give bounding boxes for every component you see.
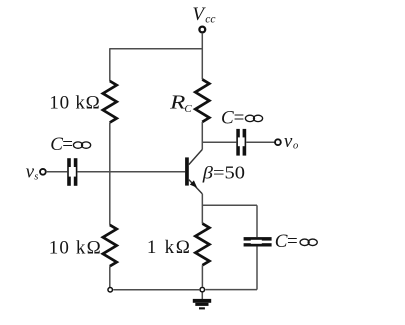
wire collector vertical (201, 122, 203, 149)
label vs (26, 162, 39, 183)
transistor Q1 emitter lead (189, 180, 203, 194)
wire base from cap to transistor (77, 171, 185, 173)
resistor RC collector (195, 79, 209, 122)
wire output left of cap (202, 141, 236, 143)
capacitor C input coupling (67, 158, 77, 186)
resistor R1 10 kOhm upper (103, 81, 117, 123)
resistor R2 10 kOhm lower (103, 225, 117, 266)
node circle bottom left (108, 287, 113, 292)
capacitor C output coupling (236, 129, 246, 156)
transistor Q1 emitter arrow (190, 180, 197, 187)
terminal vs (40, 169, 46, 175)
svg-text:V: V (192, 4, 206, 25)
wire Vcc down to Rc (201, 33, 203, 80)
label C=infinity output (221, 107, 263, 128)
wire left branch upper segment (109, 48, 111, 81)
wire bypass branch lower (256, 246, 258, 289)
svg-text:10 kΩ: 10 kΩ (49, 92, 100, 113)
svg-text:v: v (284, 131, 293, 152)
svg-text:s: s (34, 172, 38, 183)
terminal vo (275, 139, 281, 145)
value label 10 kOhm lower (49, 237, 101, 258)
wire output right of cap (246, 141, 275, 143)
value label 1 kOhm (147, 237, 190, 258)
svg-text:C: C (184, 103, 192, 115)
label RC (169, 92, 192, 115)
wire emitter vertical (201, 194, 203, 224)
transistor Q1 collector lead (189, 149, 203, 164)
wire emitter branch to bypass (202, 204, 257, 206)
svg-text:C: C (221, 107, 234, 128)
svg-text:o: o (293, 140, 298, 151)
label vo (284, 131, 298, 152)
resistor RE 1 kOhm (195, 224, 209, 266)
wire left branch middle segment through base node (109, 123, 111, 225)
wire left branch bottom segment (109, 266, 111, 287)
wire emitter resistor bottom (201, 265, 203, 287)
svg-text:cc: cc (205, 14, 215, 26)
wire bypass branch upper (256, 205, 258, 237)
ground symbol (193, 299, 211, 310)
svg-text:β=50: β=50 (202, 163, 245, 183)
svg-text:=: = (234, 107, 245, 128)
label beta=50 (202, 163, 245, 183)
node circle bottom center (200, 287, 205, 292)
wire top rail from left branch to Vcc branch (110, 48, 203, 50)
svg-text:C: C (275, 231, 288, 252)
label Vcc (192, 4, 215, 26)
svg-text:1 kΩ: 1 kΩ (147, 237, 190, 258)
terminal Vcc (199, 27, 205, 33)
capacitor C bypass (244, 237, 272, 246)
svg-text:10 kΩ: 10 kΩ (49, 237, 101, 258)
label C=infinity bypass (275, 231, 318, 252)
wire bottom rail left (113, 289, 199, 291)
wire bottom rail right (205, 289, 257, 291)
value label 10 kOhm upper (49, 92, 100, 113)
svg-text:C: C (50, 134, 63, 155)
transistor Q1 base bar (185, 157, 189, 185)
wire ground stub (201, 292, 203, 299)
wire input left of cap (46, 171, 67, 173)
svg-text:=: = (287, 231, 298, 252)
label C=infinity input (50, 134, 90, 155)
svg-text:=: = (62, 134, 73, 155)
